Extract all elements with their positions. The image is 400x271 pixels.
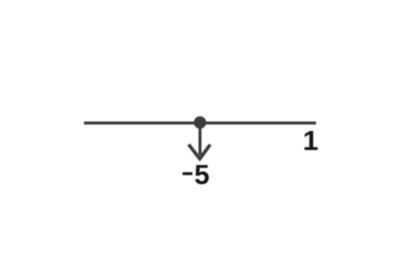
label -5 minus sign [183, 172, 193, 175]
number line [84, 122, 316, 125]
svg-text:5: 5 [194, 159, 209, 190]
point at -5 [194, 116, 206, 128]
svg-text:1: 1 [303, 124, 319, 156]
arrow shaft [199, 128, 202, 155]
arrowhead [189, 144, 211, 158]
